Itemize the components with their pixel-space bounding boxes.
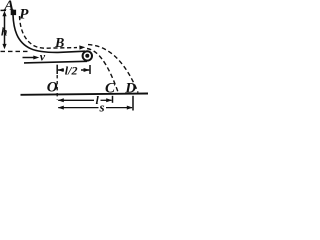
- svg-text:D: D: [124, 80, 136, 96]
- svg-text:l/2: l/2: [65, 64, 78, 78]
- svg-text:s: s: [99, 100, 105, 115]
- svg-text:v: v: [40, 49, 46, 63]
- svg-text:C: C: [105, 80, 116, 96]
- svg-text:P: P: [19, 6, 29, 22]
- svg-text:B: B: [54, 36, 64, 51]
- svg-text:h: h: [1, 26, 7, 38]
- svg-text:O: O: [47, 80, 58, 96]
- svg-text:A: A: [3, 0, 14, 14]
